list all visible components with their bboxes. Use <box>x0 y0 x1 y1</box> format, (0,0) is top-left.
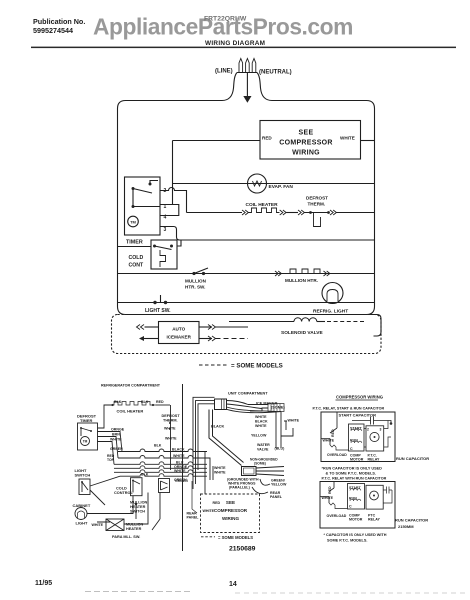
svg-text:WHITE: WHITE <box>214 471 226 475</box>
svg-text:*RUN CAPACITOR IS ONLY USED: *RUN CAPACITOR IS ONLY USED <box>322 467 383 471</box>
svg-text:WHITE: WHITE <box>174 469 186 473</box>
svg-text:RED: RED <box>156 400 164 404</box>
svg-text:WATER: WATER <box>257 443 270 447</box>
svg-text:P.T.C. RELAY WITH RUN CAPACITO: P.T.C. RELAY WITH RUN CAPACITOR <box>322 477 387 481</box>
svg-text:BLK: BLK <box>154 444 162 448</box>
svg-text:= SOME MODELS: = SOME MODELS <box>218 535 253 540</box>
svg-text:MOTOR: MOTOR <box>349 518 363 522</box>
svg-text:COIL HEATER: COIL HEATER <box>117 409 144 414</box>
svg-text:YELLOW: YELLOW <box>271 483 287 487</box>
svg-text:WHITE: WHITE <box>340 136 355 141</box>
svg-text:(PARALLEL): (PARALLEL) <box>229 486 250 490</box>
svg-text:WHITE: WHITE <box>164 427 176 431</box>
svg-text:GREEN: GREEN <box>175 479 188 483</box>
svg-text:WHITE: WHITE <box>203 509 215 513</box>
svg-text:SEE: SEE <box>226 500 235 505</box>
svg-text:WHITE: WHITE <box>323 439 335 443</box>
svg-text:HEATER: HEATER <box>130 505 146 509</box>
svg-text:& TO SOME P.T.C. MODELS.: & TO SOME P.T.C. MODELS. <box>326 472 377 476</box>
svg-text:WIRING: WIRING <box>292 150 320 157</box>
svg-text:(BLU): (BLU) <box>275 447 286 451</box>
svg-text:WHITE: WHITE <box>165 437 177 441</box>
svg-text:WHITE: WHITE <box>173 454 185 458</box>
svg-text:WHITE: WHITE <box>255 424 267 428</box>
svg-text:COLD: COLD <box>116 487 127 491</box>
svg-text:RELAY: RELAY <box>368 518 380 522</box>
svg-text:3: 3 <box>164 227 167 233</box>
svg-text:HEATER: HEATER <box>126 527 142 531</box>
svg-text:OVERLOAD: OVERLOAD <box>327 453 347 457</box>
svg-text:CONT: CONT <box>129 263 145 269</box>
svg-text:C: C <box>350 447 353 451</box>
svg-text:BLACK: BLACK <box>211 425 225 429</box>
svg-text:RELAY: RELAY <box>368 458 380 462</box>
svg-text:YELLOW: YELLOW <box>251 434 267 438</box>
svg-text:WIRING: WIRING <box>222 516 240 521</box>
svg-text:C: C <box>349 505 352 509</box>
svg-text:TIMER: TIMER <box>126 240 143 246</box>
svg-text:BLACK: BLACK <box>172 448 185 452</box>
svg-text:RUN CAPACITOR: RUN CAPACITOR <box>395 518 428 523</box>
svg-text:(NEUTRAL): (NEUTRAL) <box>259 70 292 76</box>
svg-text:BLK: BLK <box>141 473 149 477</box>
svg-text:3: 3 <box>380 428 382 432</box>
svg-text:ORNGE: ORNGE <box>111 428 125 432</box>
svg-text:SWITCH: SWITCH <box>130 510 145 514</box>
svg-text:SWITCH: SWITCH <box>75 473 91 478</box>
svg-text:2150689: 2150689 <box>229 546 256 553</box>
svg-text:(SOME): (SOME) <box>254 462 266 466</box>
svg-text:BLK: BLK <box>141 400 149 404</box>
svg-text:LIGHT: LIGHT <box>76 521 89 526</box>
svg-text:BRN: BRN <box>112 433 120 437</box>
svg-text:SEE: SEE <box>299 130 314 137</box>
svg-text:TM: TM <box>83 440 88 444</box>
svg-text:2150MM: 2150MM <box>398 524 414 529</box>
svg-text:START: START <box>350 427 363 431</box>
svg-text:LIGHT SW.: LIGHT SW. <box>145 308 171 314</box>
svg-text:COIL HEATER: COIL HEATER <box>246 202 279 208</box>
svg-text:PANEL: PANEL <box>187 516 200 520</box>
svg-text:MULLION: MULLION <box>126 523 144 527</box>
svg-text:14: 14 <box>229 581 237 588</box>
svg-text:WIRING DIAGRAM: WIRING DIAGRAM <box>205 40 265 47</box>
svg-text:11/95: 11/95 <box>35 580 52 587</box>
svg-text:OVERLOAD: OVERLOAD <box>327 514 347 518</box>
svg-text:PANEL: PANEL <box>270 495 283 499</box>
svg-text:COMPRESSOR: COMPRESSOR <box>279 140 333 147</box>
svg-text:5995274544: 5995274544 <box>33 26 73 35</box>
svg-text:BLACK: BLACK <box>255 420 268 424</box>
svg-text:WHITE: WHITE <box>214 466 226 470</box>
svg-text:RUN CAPACITOR: RUN CAPACITOR <box>396 456 429 461</box>
svg-text:COMPRESSOR WIRING: COMPRESSOR WIRING <box>336 395 383 400</box>
svg-text:SOME P.T.C. MODELS.: SOME P.T.C. MODELS. <box>327 539 367 543</box>
svg-text:WHITE: WHITE <box>288 419 300 423</box>
svg-text:BLK: BLK <box>114 400 122 404</box>
svg-text:MOTOR: MOTOR <box>350 458 364 462</box>
svg-text:REFRIG. LIGHT: REFRIG. LIGHT <box>313 309 348 315</box>
svg-text:THERM.: THERM. <box>308 202 326 207</box>
svg-text:(SOME): (SOME) <box>271 406 285 410</box>
svg-text:AUTO: AUTO <box>172 327 185 332</box>
svg-text:SOLENOID VALVE: SOLENOID VALVE <box>281 330 323 336</box>
svg-text:TIMER: TIMER <box>80 418 93 423</box>
svg-text:ICEMAKER: ICEMAKER <box>166 335 191 340</box>
svg-text:DEFROST: DEFROST <box>306 196 328 201</box>
svg-text:MULLION: MULLION <box>185 279 207 284</box>
svg-text:TM: TM <box>130 220 136 225</box>
svg-text:PARA MLL. SW.: PARA MLL. SW. <box>112 535 140 539</box>
svg-text:* CAPACITOR IS ONLY USED WITH: * CAPACITOR IS ONLY USED WITH <box>324 533 387 537</box>
svg-text:COMPRESSOR: COMPRESSOR <box>214 508 248 513</box>
svg-text:MULLION HTR.: MULLION HTR. <box>285 278 318 283</box>
svg-text:WHITE: WHITE <box>92 523 104 527</box>
svg-text:VALVE: VALVE <box>257 448 269 452</box>
svg-text:Publication No.: Publication No. <box>33 17 85 26</box>
svg-text:RED: RED <box>262 136 272 141</box>
svg-text:EVAP. FAN: EVAP. FAN <box>269 184 294 190</box>
svg-text:BLU: BLU <box>176 460 184 464</box>
svg-text:RED: RED <box>213 501 221 505</box>
svg-text:START: START <box>349 486 362 490</box>
svg-text:RED: RED <box>328 486 332 494</box>
svg-text:UNIT COMPARTMENT: UNIT COMPARTMENT <box>228 392 268 396</box>
svg-text:REFRIGERATOR COMPARTMENT: REFRIGERATOR COMPARTMENT <box>101 384 161 388</box>
svg-text:WHITE: WHITE <box>322 496 334 500</box>
svg-text:(LINE): (LINE) <box>215 69 233 75</box>
svg-text:COLD: COLD <box>129 255 144 261</box>
svg-text:= SOME MODELS: = SOME MODELS <box>231 363 283 370</box>
svg-text:FRT22QRHW: FRT22QRHW <box>204 16 247 23</box>
svg-text:2: 2 <box>367 428 369 432</box>
svg-text:MULLION: MULLION <box>130 501 148 505</box>
svg-text:HTR. SW.: HTR. SW. <box>185 285 205 290</box>
svg-text:P.T.C. RELAY, START & RUN CAPA: P.T.C. RELAY, START & RUN CAPACITOR <box>313 407 385 411</box>
svg-text:WHITE: WHITE <box>255 415 267 419</box>
